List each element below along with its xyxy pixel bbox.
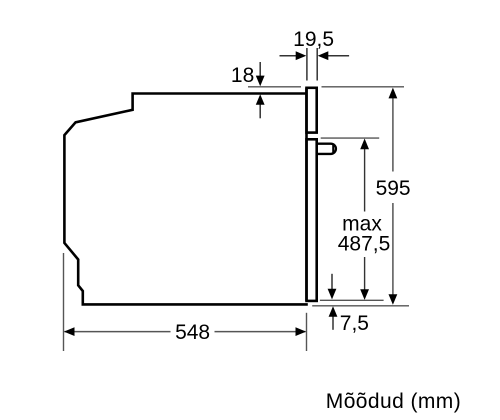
extension line oven-bottom level (7,5 lower / 595 bottom ref) xyxy=(312,305,409,307)
dim 18 up arrowhead xyxy=(256,94,265,105)
dim max487,5 upper stem xyxy=(364,148,366,212)
extension line 19,5 left vertical xyxy=(306,48,308,81)
dim 595 down arrowhead xyxy=(389,294,398,305)
door front panel lower rect (door) xyxy=(307,139,317,301)
svg-text:548: 548 xyxy=(175,321,210,344)
dim 595 lower stem xyxy=(392,203,394,296)
dim 18 lower stem xyxy=(259,104,261,119)
dim 548 left arrowhead xyxy=(64,327,75,336)
svg-text:Mõõdud (mm): Mõõdud (mm) xyxy=(326,390,461,413)
door front panel upper rect (control panel) xyxy=(307,88,317,133)
extension line 19,5 right vertical xyxy=(316,48,318,81)
handle xyxy=(317,144,336,154)
dim 7,5 down arrowhead xyxy=(328,289,337,300)
door left edge continuous xyxy=(305,88,308,301)
extension line door-top level left segment xyxy=(248,86,301,88)
extension line 548 left vertical xyxy=(63,253,65,351)
dim 18 down arrowhead xyxy=(256,76,265,87)
dim 7,5 up arrowhead xyxy=(329,306,338,317)
dim 548 right stem xyxy=(215,331,306,333)
dim max487,5 up arrowhead xyxy=(360,139,369,150)
dim 19,5 left arrowhead xyxy=(296,51,307,60)
dim 595 up arrowhead xyxy=(389,88,398,99)
dim 7,5 lower stem xyxy=(332,316,334,330)
svg-text:487,5: 487,5 xyxy=(338,232,391,255)
svg-text:595: 595 xyxy=(376,177,411,200)
oven body outline xyxy=(64,94,307,305)
dim 595 upper stem xyxy=(392,97,394,172)
svg-text:19,5: 19,5 xyxy=(293,28,334,51)
dim 548 right arrowhead xyxy=(296,327,307,336)
dim 19,5 left stem xyxy=(280,55,298,57)
extension line max487.5 top ref xyxy=(321,137,380,139)
svg-text:7,5: 7,5 xyxy=(340,312,369,335)
dim max487,5 lower stem xyxy=(364,257,366,292)
dim max487,5 down arrowhead xyxy=(360,289,369,300)
extension line door-bottom level (7,5 upper ref) xyxy=(320,299,384,301)
dim 19,5 right stem xyxy=(327,55,349,57)
dim 7,5 upper stem xyxy=(331,274,333,291)
dim 548 left stem xyxy=(65,331,171,333)
extension line 548 right vertical xyxy=(306,313,308,351)
extension line door-top level right segment (595 top ref) xyxy=(322,86,405,88)
svg-text:18: 18 xyxy=(231,64,254,87)
dim 19,5 right arrowhead xyxy=(318,51,329,60)
dim 18 upper stem xyxy=(259,62,261,77)
handle end cap line xyxy=(332,145,334,153)
